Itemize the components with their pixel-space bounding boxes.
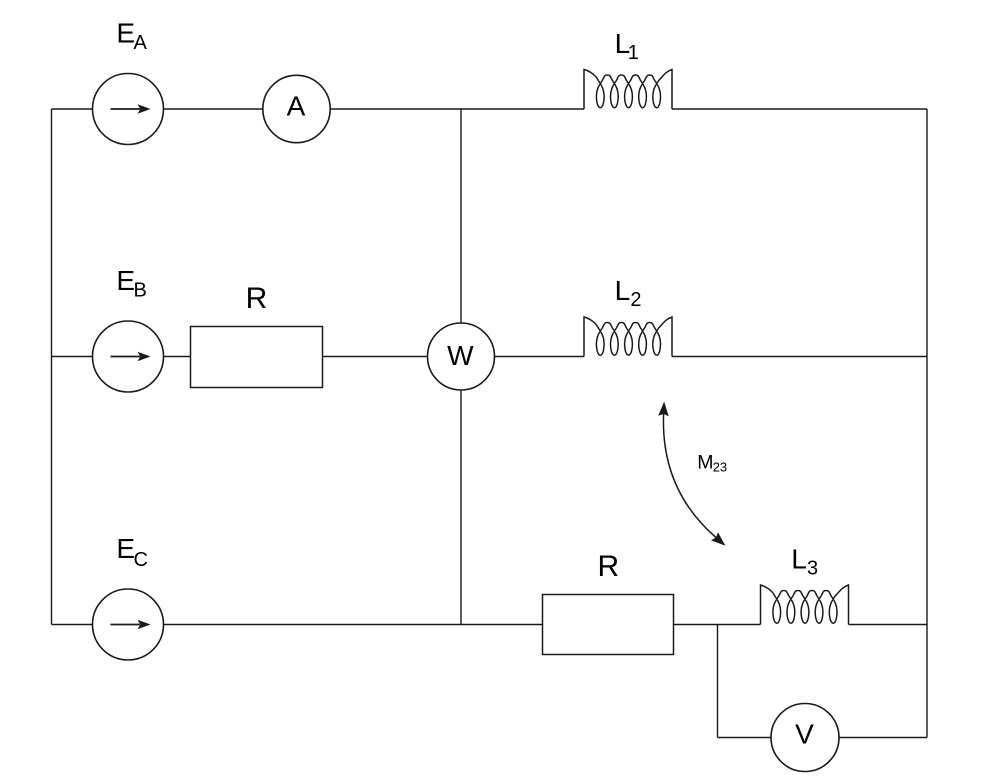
wire voltmeter right	[839, 737, 927, 739]
resistor R bottom rect	[543, 595, 674, 655]
wire center vertical lower: wattmeter to bottom row	[460, 390, 462, 625]
svg-text:R: R	[597, 550, 619, 583]
svg-text:A: A	[134, 32, 148, 54]
wire middle row: resistor R to wattmeter	[323, 356, 428, 358]
svg-text:23: 23	[713, 459, 727, 474]
svg-text:C: C	[134, 549, 148, 571]
wire center vertical upper: top row to wattmeter	[460, 109, 462, 323]
wire bottom row: EC to resistor R	[164, 624, 543, 626]
svg-text:E: E	[116, 533, 135, 564]
inductor L2 coil	[584, 317, 672, 357]
M23 arrowhead bottom	[711, 532, 725, 546]
svg-text:W: W	[447, 340, 474, 371]
svg-text:3: 3	[807, 558, 818, 580]
resistor R middle rect	[191, 327, 323, 388]
svg-text:A: A	[287, 90, 306, 121]
wire top row: bus to source EA	[52, 108, 93, 110]
source EB circle	[93, 321, 164, 392]
svg-text:L: L	[791, 544, 807, 575]
svg-text:E: E	[116, 17, 135, 48]
wire right bus	[926, 109, 928, 738]
wire bottom row: resistor R to L3	[674, 624, 761, 626]
source EA circle	[93, 74, 164, 145]
voltmeter V circle	[771, 704, 839, 772]
source EA arrow	[111, 104, 151, 113]
svg-text:V: V	[795, 719, 814, 750]
inductor L3 coil	[761, 585, 849, 625]
source EB arrow	[111, 352, 151, 361]
wire top row: ammeter to L1	[330, 108, 584, 110]
svg-text:M: M	[697, 452, 713, 474]
wire middle row: EB to resistor R	[164, 356, 191, 358]
wire top row: L1 to right bus	[672, 108, 927, 110]
svg-text:L: L	[615, 275, 631, 306]
mutual inductance arrow M23 arc	[663, 414, 716, 538]
wire bottom row: L3 to right bus	[849, 624, 928, 626]
wattmeter W circle	[428, 323, 495, 390]
wire middle row: L2 to right bus	[672, 356, 927, 358]
M23 arrowhead top	[658, 402, 669, 417]
svg-text:E: E	[116, 265, 135, 296]
svg-text:B: B	[134, 280, 147, 302]
svg-text:R: R	[246, 282, 268, 315]
ammeter A circle	[263, 75, 330, 142]
wire top row: EA to ammeter	[164, 108, 263, 110]
wire middle row: bus to source EB	[52, 356, 93, 358]
wire middle row: wattmeter to L2	[495, 356, 585, 358]
wire bottom row: bus to source EC	[52, 624, 93, 626]
svg-text:2: 2	[630, 289, 641, 311]
source EC arrow	[111, 620, 151, 629]
source EC circle	[93, 589, 164, 660]
wire voltmeter left	[718, 737, 772, 739]
wire voltmeter stub down	[717, 625, 719, 738]
inductor L1 coil	[584, 70, 672, 110]
wire left bus	[51, 109, 53, 625]
svg-text:1: 1	[628, 42, 639, 64]
